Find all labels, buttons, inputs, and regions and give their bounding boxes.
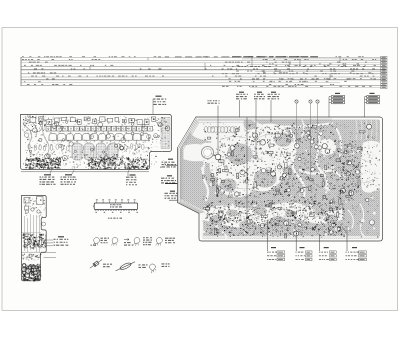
label block VR2 (left of main PCB, middle) [161, 175, 176, 183]
left PCB comb row of package outlines [49, 133, 149, 142]
main PCB cluster in bottom channel [205, 206, 344, 233]
legend: transistor type C text [143, 237, 152, 245]
main PCB fine trace curves [206, 126, 372, 222]
main PCB capacitor rows (top-left) [198, 119, 332, 133]
legend: arrow [124, 239, 129, 241]
legend: transistor type A text [101, 238, 110, 244]
label block C133 (below main PCB 4, boxed) [346, 247, 367, 261]
auxiliary PCB middle component band [23, 234, 47, 249]
main PCB cluster around center blob [216, 132, 291, 197]
legend: transistor diagonal text [162, 263, 170, 267]
left PCB board outline [21, 115, 172, 170]
main PCB mounting hole (large white circle) [202, 147, 214, 159]
wire: pointer line from block 3 [270, 100, 272, 122]
wire: pointer line middle (heavy) [165, 183, 285, 185]
main PCB resistor outlines [202, 126, 365, 239]
label block L (points into board) [208, 100, 220, 104]
main PCB dense cluster (bottom band) [205, 200, 345, 237]
wire: pointer line from label L to transistor [217, 106, 219, 155]
left PCB lower component cluster [23, 150, 149, 170]
label block VR3 (left of main PCB, lower) [165, 191, 179, 199]
main PCB component speckle [202, 122, 379, 238]
legend: resistor symbol (diagonal) [115, 260, 136, 273]
main PCB tone veil [180, 120, 380, 239]
label block C49 (below left PCB, right) [126, 174, 137, 185]
left PCB small transistor circles [25, 118, 170, 165]
screw symbol S1 [295, 100, 298, 146]
label block C130 (below main PCB 1, boxed) [267, 247, 285, 261]
left PCB component row: lower resistors [28, 143, 144, 151]
main PCB striation traces top-right [356, 120, 377, 140]
harness right end connector stack [381, 56, 387, 58]
main PCB board outline [178, 117, 383, 241]
main PCB dense cluster (right column) [340, 141, 363, 193]
wire: pointer line from block 2 (long) [255, 100, 257, 160]
left PCB DIP row [46, 126, 153, 131]
legend: transistor type D text [165, 238, 175, 244]
harness vertical jumpers [147, 58, 149, 61]
main PCB dense cluster (center-right) [280, 148, 346, 206]
wiring harness chart: horizontal wires [21, 57, 386, 59]
wire: pointer line from block 1 [239, 100, 241, 118]
left PCB curved traces (left zone) [25, 118, 49, 156]
main PCB dense cluster (top band) [249, 124, 336, 143]
harness wire labels (fine text) [22, 56, 376, 87]
legend: transistor type C symbol [133, 238, 140, 246]
left PCB overlay speckle [26, 116, 168, 168]
label block C120 (above main PCB, 1) [236, 92, 248, 100]
label block C122 (above main PCB, 3) [268, 92, 280, 100]
wire: interior vertical pointer [246, 118, 248, 219]
auxiliary PCB board outline [22, 196, 47, 281]
wire: pointer from C54 label to left PCB [152, 105, 154, 115]
wire: pointer to lower-left tables [72, 169, 75, 175]
left PCB base component speckle [23, 116, 169, 151]
connector J1 body [94, 203, 137, 210]
left PCB lower edge trace [21, 171, 149, 173]
auxiliary PCB notch hole [42, 222, 46, 226]
main PCB cluster right-middle white area [364, 145, 380, 189]
label block R301 (top right, boxed values) [329, 93, 345, 118]
label table (below left PCB, column 1) [40, 174, 56, 185]
legend: transistor type B symbol [111, 238, 118, 246]
legend: note under type A [91, 245, 97, 246]
main PCB copper pour (halftone) [180, 120, 380, 239]
label block C131 (below main PCB 2, boxed) [296, 247, 313, 261]
main PCB edge trace rings [179, 118, 205, 213]
legend: diode text [103, 264, 112, 268]
auxiliary PCB trace lines [22, 214, 56, 258]
left PCB top-left component clump [23, 116, 46, 133]
label block C64 (right of auxiliary PCB) [54, 236, 69, 246]
harness left end vertical tie [20, 57, 22, 86]
legend: transistor type B text [124, 242, 133, 246]
wire: bottom pointer line 3 [319, 234, 321, 251]
auxiliary PCB bottom dense cluster [22, 264, 41, 282]
legend: transistor type A symbol [93, 238, 100, 246]
wire: bottom pointer line 2 [295, 230, 297, 251]
connector J1 pin ticks (bottom) [95, 210, 137, 213]
label block C132 (below main PCB 3, boxed) [319, 247, 336, 261]
auxiliary PCB lower small row [22, 254, 41, 261]
screw symbol S2 [309, 100, 312, 178]
harness heavy dashed segment [158, 56, 318, 57]
left PCB component row: top capacitors [30, 117, 156, 125]
wire: pointer line lower [169, 199, 232, 201]
connector J1 pin ticks (top) [96, 199, 136, 203]
left PCB electrolytic cans (halftone) [72, 143, 82, 160]
wire: bottom pointer line 4 [346, 226, 348, 251]
label block C121 (above main PCB, 2) [254, 92, 265, 100]
label table (below left PCB, column 2) [61, 174, 77, 185]
main PCB clearance channels (white) [179, 119, 197, 202]
legend: transistor type D symbol [156, 238, 163, 246]
label block R302 (top right 2, boxed values) [365, 93, 380, 118]
main PCB transistor outlines [206, 124, 375, 236]
left PCB copper strip (halftone) [161, 118, 170, 149]
wire: pointers from C64 block to auxiliary PCB [42, 240, 53, 246]
legend: diode symbol (diagonal) [89, 258, 103, 269]
label block VR1 (left of main PCB, upper) [162, 159, 177, 168]
legend: resistor text [139, 264, 148, 268]
connector J1 internal label [110, 204, 122, 207]
legend: transistor diagonal symbol [148, 263, 158, 273]
wire: pointer to C49 block [128, 157, 138, 176]
label block C54 (above left PCB) [153, 96, 166, 105]
wire: bottom pointer line 1 [266, 221, 268, 251]
auxiliary PCB upper components [24, 197, 46, 218]
connector J1 caption [108, 218, 122, 219]
wire: pointer line upper [166, 165, 232, 167]
main PCB copper islands inside channels [209, 120, 338, 233]
screw symbol S3 [316, 100, 319, 140]
